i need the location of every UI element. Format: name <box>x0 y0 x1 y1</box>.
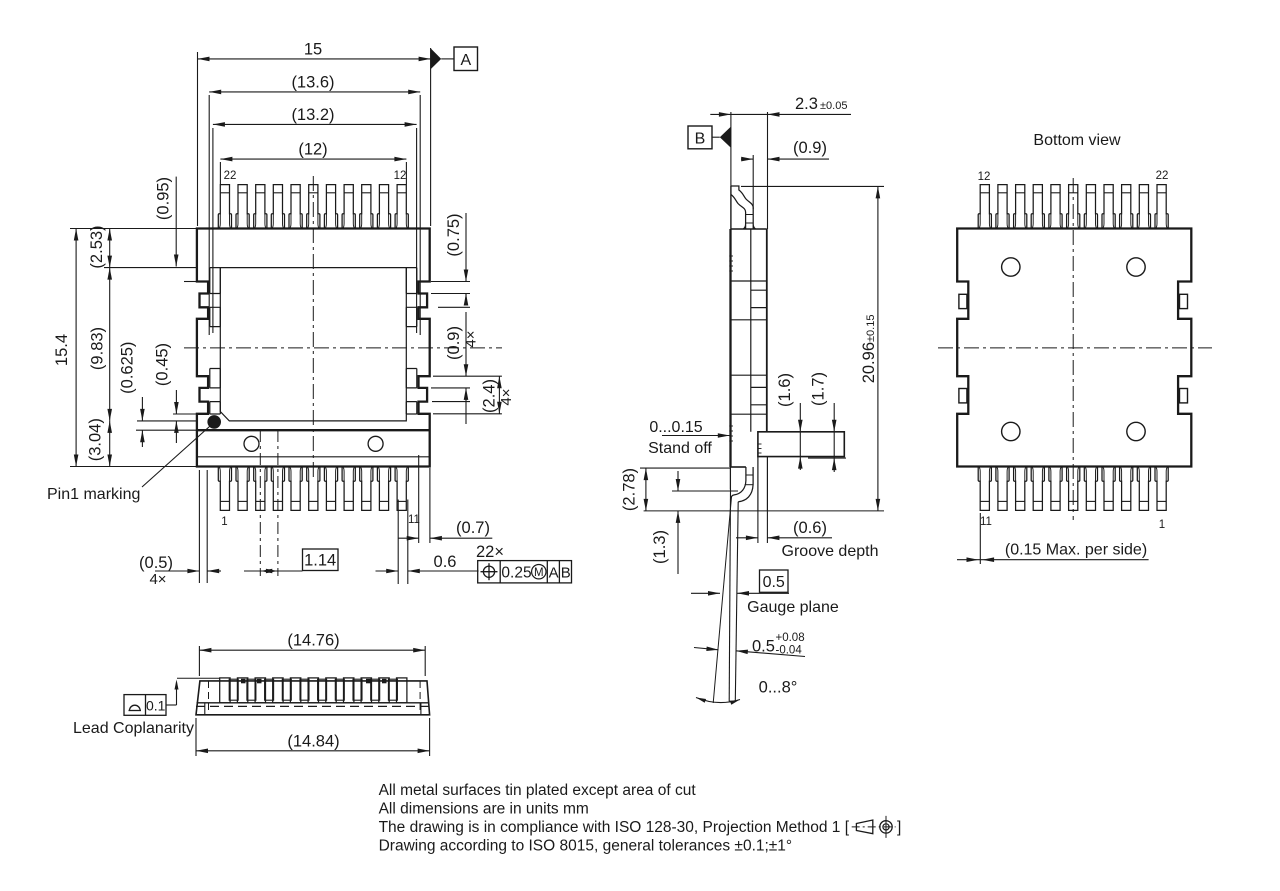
feature control frame box <box>478 561 572 583</box>
svg-text:0.5: 0.5 <box>763 574 785 591</box>
dimension (0.45) line and arrows <box>174 390 179 443</box>
pin3 pin4 centerline extensions <box>260 430 278 576</box>
dimension 2.3 extension line right <box>767 112 769 229</box>
right extension line cluster1 notch bottom <box>431 293 470 295</box>
svg-text:A: A <box>460 52 471 69</box>
svg-text:0.25: 0.25 <box>501 565 531 582</box>
stand off arrow <box>662 433 730 438</box>
svg-text:(0.75): (0.75) <box>445 213 463 256</box>
side view bent lead edges <box>729 490 738 702</box>
dimension (0.5) line and arrows <box>155 569 221 574</box>
material condition M circle <box>532 565 546 580</box>
svg-text:(1.3): (1.3) <box>651 530 669 564</box>
dimension 1.14 line <box>244 569 303 574</box>
dimension 20.96 line <box>876 186 881 511</box>
svg-text:(0.9): (0.9) <box>793 139 827 157</box>
top view lower pin row (pins 1-11) <box>218 467 408 511</box>
svg-text:0...8°: 0...8° <box>759 679 798 697</box>
dimension 2.3 line and arrows <box>710 112 851 117</box>
svg-text:22×: 22× <box>476 543 504 561</box>
pin 1 marking dot <box>207 415 221 429</box>
right extension line cluster2 bottom <box>433 413 502 415</box>
svg-text:(0.625): (0.625) <box>118 342 136 394</box>
svg-text:4×: 4× <box>463 330 480 347</box>
dimension (0.15) extension line <box>979 513 981 564</box>
dimension (0.7) extension lines <box>419 455 430 543</box>
top view upper pin row (pins 22-12) <box>218 185 408 229</box>
left extension line at body bottom <box>70 466 197 468</box>
side view top lead stem ticks <box>746 215 754 224</box>
svg-text:(12): (12) <box>298 141 327 159</box>
top view bottom rail lower inner line <box>197 456 430 458</box>
svg-text:1: 1 <box>1159 519 1165 531</box>
right extension line cluster1 step <box>431 281 470 283</box>
side view body bottom segment <box>731 466 746 468</box>
dimension (2.78) line <box>644 468 649 511</box>
coplanarity view lower edge line <box>197 702 430 704</box>
side view slug serrations <box>758 444 762 453</box>
dimension (2.78) extension line <box>640 467 730 469</box>
svg-text:12: 12 <box>978 171 991 183</box>
right extension line cluster1 notch2 <box>438 306 470 308</box>
dimension (13.2) line <box>213 122 417 127</box>
svg-text:(13.6): (13.6) <box>291 73 334 91</box>
bottom view horizontal centerline <box>938 347 1212 349</box>
coplanarity view corner feet <box>205 703 421 715</box>
top view horizontal centerline <box>184 347 502 349</box>
svg-text:Lead Coplanarity: Lead Coplanarity <box>73 720 194 737</box>
svg-text:15.4: 15.4 <box>53 334 71 366</box>
lead angle arc <box>696 698 740 705</box>
dimension (13.2) extension lines <box>213 128 417 333</box>
left extension line at step level <box>173 413 197 415</box>
svg-text:1.14: 1.14 <box>304 552 336 570</box>
svg-text:±0.05: ±0.05 <box>820 100 847 112</box>
dimension (3.04) line <box>107 421 112 467</box>
dimension (9.83) line <box>107 268 112 421</box>
svg-text:(0.45): (0.45) <box>154 343 172 386</box>
dimension (0.7) line and arrows <box>398 536 492 541</box>
svg-text:-0.04: -0.04 <box>776 645 803 657</box>
svg-text:(9.83): (9.83) <box>88 327 106 370</box>
dimension (14.76) line <box>199 648 425 653</box>
dimension 0.6 line and arrows <box>376 569 479 574</box>
dimension (12) line <box>220 157 406 162</box>
dimension 15 line <box>198 57 431 62</box>
side view bottom lead stem <box>745 467 753 485</box>
svg-text:B: B <box>695 131 706 148</box>
svg-text:(0.6): (0.6) <box>793 519 827 537</box>
svg-text:0.1: 0.1 <box>146 698 166 714</box>
coplanarity view seating dashed line <box>196 705 430 707</box>
top view bottom rail upper edge <box>197 429 430 431</box>
side view tab edge lines upper <box>751 290 767 307</box>
projection symbol centerline <box>852 826 896 828</box>
svg-text:(0.7): (0.7) <box>456 519 490 537</box>
pin 1 marking leader line <box>142 427 210 488</box>
dimension 20.96 text <box>860 315 878 384</box>
datum A box <box>454 47 478 71</box>
dimension (14.84) line <box>196 749 430 754</box>
coplanarity view lead marks <box>241 679 387 684</box>
datum A connector <box>441 58 454 60</box>
bottom view hole bottom-right <box>1127 422 1145 440</box>
bottom view side tab ends <box>959 294 1188 403</box>
dimension (13.6) extension lines <box>209 95 420 335</box>
dimension (1.7) line and arrows <box>832 403 837 472</box>
dimension (0.9) line and arrows <box>464 294 469 425</box>
dimension 1.14 box <box>303 549 339 571</box>
datum B extension line <box>730 112 732 229</box>
lead thickness line and arrows <box>694 647 805 657</box>
svg-text:11: 11 <box>980 516 992 528</box>
top view package body outline <box>197 229 430 467</box>
svg-text:22: 22 <box>1156 170 1169 182</box>
side view tab edge lines lower <box>751 387 767 404</box>
right extension line cluster2 notch2 <box>432 401 470 403</box>
dimension (0.625) line and arrows <box>140 397 145 447</box>
svg-text:(2.53): (2.53) <box>88 225 106 268</box>
left extension line at cavity bottom <box>137 420 197 422</box>
top view die pad cavity outline <box>220 268 406 421</box>
bottom view body outline <box>957 229 1191 467</box>
coplanarity view corner dashes <box>209 681 421 715</box>
svg-text:(0.95): (0.95) <box>155 177 173 220</box>
left extension line at rail top <box>136 429 197 431</box>
right extension line cluster2 notch <box>431 387 470 389</box>
top view vertical centerline <box>312 176 314 478</box>
coplanarity lead tip reference line <box>177 677 220 679</box>
side view left edge <box>729 229 731 467</box>
dimension (0.15) line and arrows <box>957 557 1149 562</box>
bottom view hole bottom-left <box>1002 422 1020 440</box>
svg-text:(0.5): (0.5) <box>139 554 173 572</box>
side view inner vertical line <box>750 229 752 432</box>
bottom view lower pin row (11-1) <box>978 467 1168 511</box>
dimension (1.3) extension line <box>672 490 738 492</box>
seating plane line <box>644 510 884 512</box>
coplanarity frame box <box>124 695 166 716</box>
top view rail hole left <box>244 436 259 451</box>
svg-text:(0.9): (0.9) <box>445 326 463 360</box>
datum A filled triangle <box>431 48 442 69</box>
svg-text:4×: 4× <box>149 571 166 588</box>
dimension (1.7) extension line <box>808 457 846 459</box>
side view body top edge <box>731 228 767 230</box>
dimension (14.76) extension lines <box>199 646 425 676</box>
dimension 20.96 extension lines <box>741 185 884 187</box>
dimension (12) extension lines <box>220 162 406 184</box>
svg-text:15: 15 <box>304 40 322 58</box>
svg-text:]: ] <box>897 819 901 836</box>
right extension line cluster2 top <box>433 375 502 377</box>
position tolerance symbol <box>481 563 498 580</box>
svg-text:Groove depth: Groove depth <box>782 543 879 560</box>
groove depth extension lines <box>758 511 768 543</box>
left extension line at cavity top <box>104 267 197 269</box>
side view heat slug tab <box>758 432 844 457</box>
side view bottom lead bend <box>730 467 753 502</box>
svg-text:2.3: 2.3 <box>795 95 818 113</box>
svg-text:0...0.15: 0...0.15 <box>649 419 702 436</box>
bottom view upper pin row (12-22) <box>978 185 1168 229</box>
dimension (0.95) line and arrow <box>174 177 179 267</box>
svg-text:(3.04): (3.04) <box>87 418 105 461</box>
top view left side tie-bar tabs <box>210 268 221 414</box>
coplanarity view body outline <box>196 681 430 715</box>
left extension line at body top <box>70 228 197 230</box>
svg-text:B: B <box>561 565 571 582</box>
svg-text:22: 22 <box>224 170 237 182</box>
svg-text:Bottom view: Bottom view <box>1033 132 1121 149</box>
coplanarity leader <box>166 680 179 706</box>
svg-text:(2.4): (2.4) <box>481 379 499 413</box>
lead thickness text <box>752 632 805 657</box>
svg-text:0.6: 0.6 <box>434 553 457 571</box>
svg-text:A: A <box>549 565 559 582</box>
dimension (0.75) line and arrows <box>464 213 469 306</box>
side view horizontal parting lines <box>731 281 767 414</box>
datum B connector <box>712 136 720 138</box>
dimension (2.53) line <box>107 229 112 268</box>
dimension (1.3) line and arrows <box>676 471 681 574</box>
dimension (0.9) side line and arrows <box>741 157 829 162</box>
dimension (1.6) line and arrows <box>798 403 803 470</box>
svg-text:12: 12 <box>394 170 407 182</box>
svg-text:0.5: 0.5 <box>752 638 775 656</box>
coplanarity symbol <box>129 705 142 710</box>
top view rail hole right <box>368 436 383 451</box>
svg-text:(0.15 Max. per side): (0.15 Max. per side) <box>1005 542 1147 559</box>
side view 8 degree construction line <box>713 497 731 703</box>
datum B box <box>688 126 712 149</box>
dimension (14.84) extension lines <box>196 718 430 756</box>
svg-text:(2.78): (2.78) <box>621 468 639 511</box>
svg-text:(14.84): (14.84) <box>287 732 339 750</box>
projection symbol target circles <box>880 816 892 838</box>
datum B filled triangle <box>720 127 731 148</box>
svg-text:All metal surfaces tin plated: All metal surfaces tin plated except are… <box>379 782 697 799</box>
projection method symbol cone <box>856 820 872 834</box>
dimension 15 extension lines <box>198 48 431 226</box>
bottom view hole top-left <box>1002 258 1020 276</box>
left extension line at cluster step <box>184 281 197 283</box>
svg-text:1: 1 <box>221 516 227 528</box>
svg-text:(1.7): (1.7) <box>810 372 828 406</box>
svg-text:Gauge plane: Gauge plane <box>747 599 839 616</box>
svg-text:+0.08: +0.08 <box>776 632 805 644</box>
svg-text:The drawing is in compliance w: The drawing is in compliance with ISO 12… <box>379 819 850 836</box>
side view groove edges <box>758 457 768 511</box>
svg-text:4×: 4× <box>498 388 515 405</box>
side view left edge serrations <box>729 256 733 441</box>
coplanarity view lead row <box>220 678 407 703</box>
dimension (13.6) line <box>209 90 420 95</box>
side view top lead profile <box>731 186 756 229</box>
svg-text:Pin1 marking: Pin1 marking <box>47 486 140 503</box>
dimension 0.6 extension lines <box>398 500 408 585</box>
svg-text:Stand off: Stand off <box>648 440 712 457</box>
svg-text:M: M <box>534 567 544 579</box>
bottom view vertical centerline <box>1072 178 1074 520</box>
svg-text:(14.76): (14.76) <box>287 632 339 650</box>
bottom view hole top-right <box>1127 258 1145 276</box>
side view right edge <box>766 229 768 432</box>
dimension (0.9) side extension line <box>752 155 754 209</box>
svg-text:All dimensions are in units mm: All dimensions are in units mm <box>379 801 589 818</box>
dimension 15.4 line <box>74 229 79 467</box>
gauge plane line and arrows <box>691 591 789 596</box>
svg-text:(1.6): (1.6) <box>776 373 794 407</box>
svg-text:Drawing according to ISO 8015,: Drawing according to ISO 8015, general t… <box>379 838 793 855</box>
gauge plane 0.5 box <box>760 570 789 592</box>
groove depth line and arrows <box>736 536 832 541</box>
dimension 2.3 text <box>795 95 847 113</box>
dimension (0.5) extension lines <box>199 470 207 583</box>
dimension (2.4) line <box>497 376 502 414</box>
svg-text:(13.2): (13.2) <box>291 106 334 124</box>
top view right side tie-bar tabs <box>406 268 417 414</box>
